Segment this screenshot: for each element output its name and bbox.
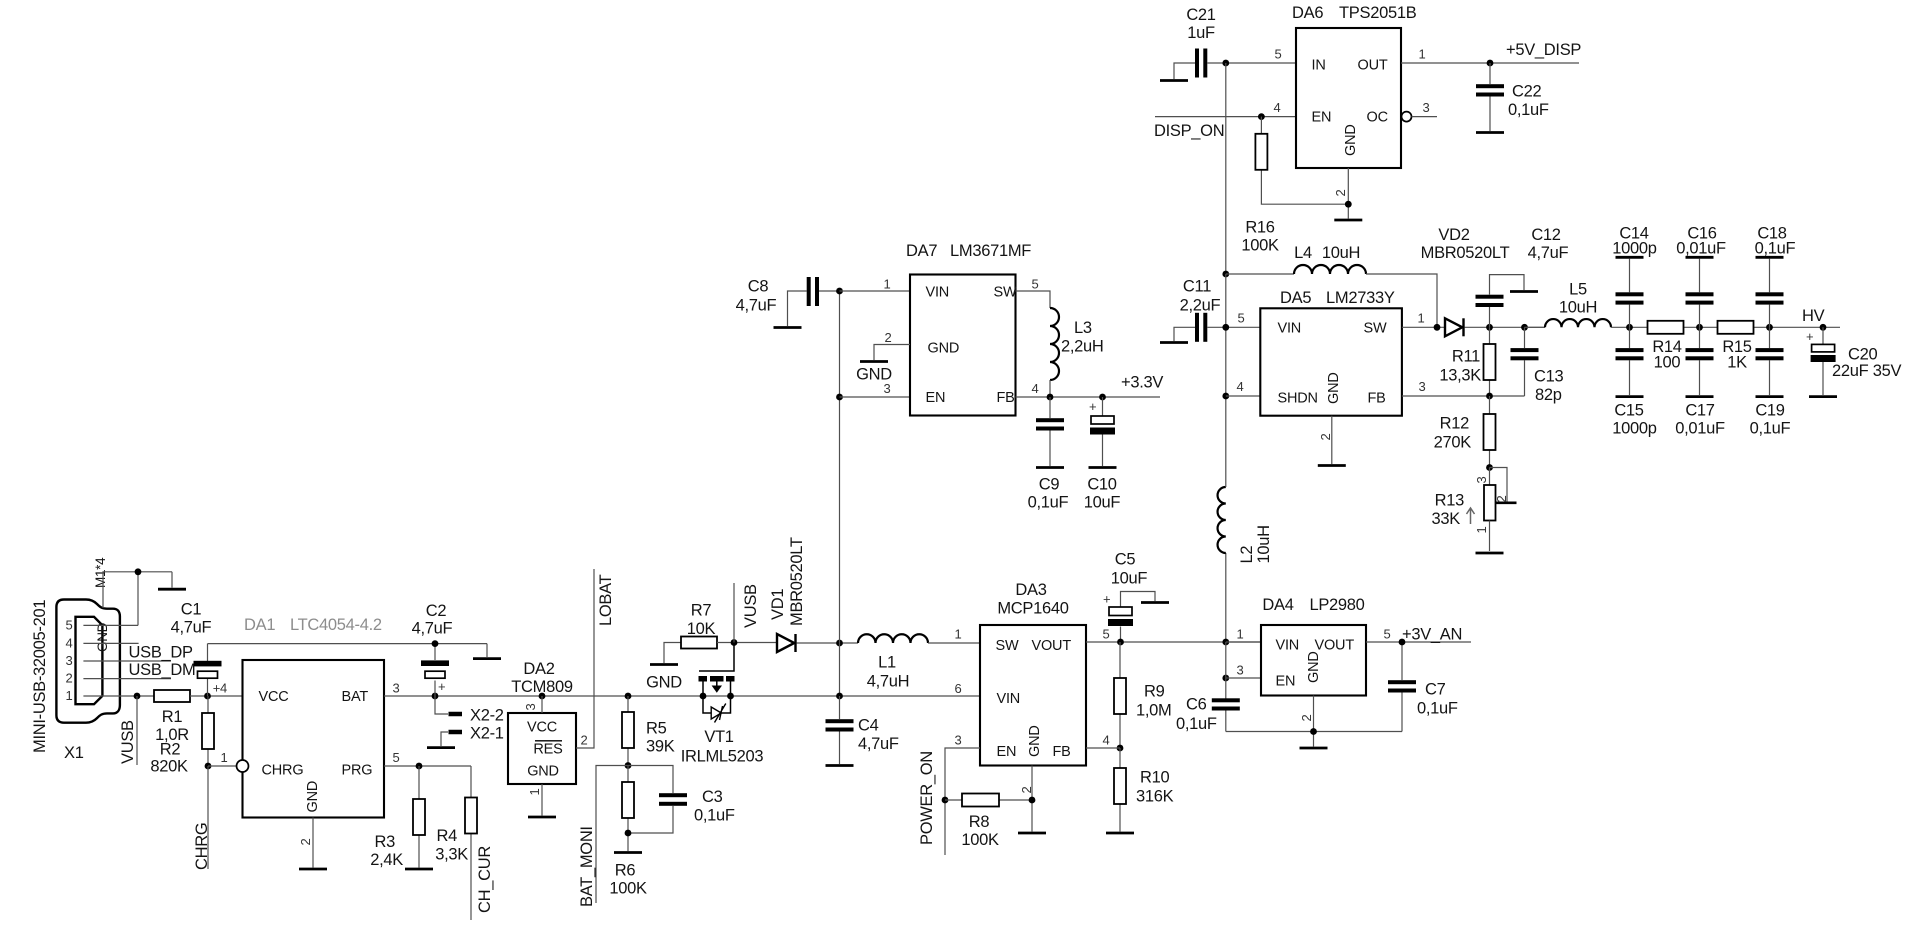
svg-text:POWER_ON: POWER_ON xyxy=(918,751,936,845)
ground (C9) xyxy=(1036,466,1064,469)
svg-text:4,7uF: 4,7uF xyxy=(1528,244,1569,262)
node VT1 left on BAT rail xyxy=(700,693,707,700)
op-amp U: IC DA1 LTC4054-4.2 xyxy=(243,616,385,818)
svg-text:C22: C22 xyxy=(1512,83,1541,101)
node C16/C17 xyxy=(1696,324,1703,331)
svg-text:39K: 39K xyxy=(646,738,675,756)
svg-text:0,1uF: 0,1uF xyxy=(1755,240,1796,258)
svg-text:R9: R9 xyxy=(1144,683,1165,701)
svg-text:VOUT: VOUT xyxy=(1315,638,1355,654)
IC DA2 TCM809 xyxy=(508,660,576,784)
wire DA1 GND pin down xyxy=(312,818,314,868)
svg-text:13,3K: 13,3K xyxy=(1439,367,1481,385)
node DA4 GND row xyxy=(1310,728,1317,735)
node R16 top xyxy=(1258,113,1265,120)
node R6/C3 xyxy=(625,830,632,837)
capacitor C17 0,01uF xyxy=(1675,327,1725,437)
svg-text:USB_DM: USB_DM xyxy=(129,661,196,679)
svg-text:0,1uF: 0,1uF xyxy=(1176,715,1217,733)
wire DA2 pin3 xyxy=(541,696,543,713)
ground (C4) xyxy=(826,764,854,767)
wire CHRG pin xyxy=(208,765,236,767)
svg-text:+: + xyxy=(1089,399,1096,414)
svg-text:1,0M: 1,0M xyxy=(1136,702,1171,720)
svg-text:5: 5 xyxy=(1275,47,1282,62)
svg-text:GND: GND xyxy=(928,341,960,357)
svg-text:C21: C21 xyxy=(1186,6,1215,24)
svg-text:C17: C17 xyxy=(1685,402,1714,420)
wire X1 pin2 USB_DM xyxy=(83,678,171,680)
wire C6/DA4 gnd row xyxy=(1226,731,1402,733)
svg-text:4: 4 xyxy=(66,636,73,651)
svg-text:R12: R12 xyxy=(1440,415,1469,433)
capacitor C7 0,1uF xyxy=(1388,642,1458,732)
svg-text:4,7uF: 4,7uF xyxy=(736,297,777,315)
svg-text:10uH: 10uH xyxy=(1255,525,1273,563)
transistor Q VT1 IRLML5203 xyxy=(681,643,764,766)
node C10 xyxy=(1099,394,1106,401)
node VD1/L1/DA7 column xyxy=(836,640,843,647)
svg-text:+3.3V: +3.3V xyxy=(1121,374,1163,392)
ground (DA6) xyxy=(1334,219,1362,222)
svg-text:R6: R6 xyxy=(615,862,636,880)
pin OC inverting circle and stub xyxy=(1402,112,1438,122)
wire VUSB stub up xyxy=(733,583,735,643)
node C5/VOUT xyxy=(1117,639,1124,646)
wire to DA4 EN xyxy=(1226,642,1261,700)
ground (DA5) xyxy=(1318,464,1346,467)
svg-text:R1: R1 xyxy=(162,708,183,726)
svg-text:4,7uF: 4,7uF xyxy=(171,619,212,637)
node DA6 GND / R16 xyxy=(1345,201,1352,208)
wire X1 pin5 xyxy=(83,624,138,626)
svg-text:VD2: VD2 xyxy=(1438,226,1469,244)
trimmer R13 33K xyxy=(1432,468,1517,552)
svg-text:R2: R2 xyxy=(160,741,181,759)
ground (DA7 GND pin) xyxy=(856,362,892,384)
node column/BAT rail xyxy=(836,693,843,700)
svg-text:10uH: 10uH xyxy=(1322,244,1360,262)
svg-text:10uF: 10uF xyxy=(1111,570,1148,588)
resistor R10 xyxy=(1114,748,1174,832)
node C18/C19 xyxy=(1766,324,1773,331)
wire DA2 pin2 to LOBAT xyxy=(576,569,594,748)
svg-text:2: 2 xyxy=(66,671,73,686)
node R1/C1/R2 xyxy=(204,693,211,700)
svg-text:2: 2 xyxy=(1333,190,1348,197)
ground (C8) xyxy=(774,291,807,328)
svg-text:820K: 820K xyxy=(150,758,188,776)
svg-text:SW: SW xyxy=(1364,321,1387,337)
wire VD1 cathode to node xyxy=(797,642,859,644)
wire pin5 to gnd net vertical xyxy=(137,572,139,626)
svg-text:316K: 316K xyxy=(1136,788,1174,806)
svg-text:TPS2051B: TPS2051B xyxy=(1339,4,1417,22)
capacitor C1 4,7uF (polarized) xyxy=(171,601,222,697)
svg-text:5: 5 xyxy=(1238,311,1245,326)
svg-text:IRLML5203: IRLML5203 xyxy=(681,748,764,766)
svg-text:6: 6 xyxy=(955,681,962,696)
svg-text:1: 1 xyxy=(1419,47,1426,62)
svg-text:4: 4 xyxy=(1032,381,1039,396)
svg-text:VIN: VIN xyxy=(1276,638,1300,654)
svg-text:0,1uF: 0,1uF xyxy=(1028,494,1069,512)
svg-text:X2-1: X2-1 xyxy=(470,725,504,743)
svg-text:LOBAT: LOBAT xyxy=(597,574,615,626)
resistor R8 xyxy=(945,794,1032,850)
svg-text:10K: 10K xyxy=(687,620,716,638)
connector X1 MINI-USB-32005-201 xyxy=(56,600,120,723)
svg-text:MBR0520LT: MBR0520LT xyxy=(788,537,806,626)
diode VD1 MBR0520LT xyxy=(769,537,806,652)
wire BAT rail y696 xyxy=(384,695,980,697)
ground (DA4) xyxy=(1300,747,1328,750)
ground (C19) xyxy=(1756,395,1784,398)
svg-text:5: 5 xyxy=(393,750,400,765)
wire DA2 pin1 down xyxy=(541,784,543,816)
svg-text:GND: GND xyxy=(305,781,321,813)
svg-text:DA2: DA2 xyxy=(523,660,554,678)
ground (C12) xyxy=(1510,290,1538,293)
ground (C5) xyxy=(1141,601,1169,604)
svg-text:CH_CUR: CH_CUR xyxy=(476,846,494,913)
svg-text:C12: C12 xyxy=(1531,226,1560,244)
svg-text:DA1: DA1 xyxy=(244,616,275,634)
node SW/L4 xyxy=(1434,324,1441,331)
svg-text:C15: C15 xyxy=(1614,402,1643,420)
svg-text:C20: C20 xyxy=(1848,346,1877,364)
svg-text:2: 2 xyxy=(581,733,588,748)
node C11/rail xyxy=(1222,324,1229,331)
resistor R9 xyxy=(1114,642,1171,748)
node junction M1/GND xyxy=(135,568,142,575)
ground (C18 top) xyxy=(1756,256,1784,259)
capacitor C2 4,7uF (polarized) xyxy=(412,602,453,696)
IC DA5 LM2733Y xyxy=(1260,289,1402,416)
node FB/R11/R12 xyxy=(1486,393,1493,400)
svg-text:VCC: VCC xyxy=(527,720,557,736)
capacitor C21 1uF xyxy=(1186,6,1296,78)
svg-text:OUT: OUT xyxy=(1358,58,1388,74)
svg-text:0,01uF: 0,01uF xyxy=(1676,240,1726,258)
svg-text:100K: 100K xyxy=(961,831,999,849)
capacitor C13 82p xyxy=(1511,327,1564,404)
svg-text:C3: C3 xyxy=(702,788,723,806)
wire C1/C2 top ground rail xyxy=(208,643,488,645)
wire DA7 SW to L3 xyxy=(1016,291,1051,308)
svg-text:2,4K: 2,4K xyxy=(370,851,403,869)
wire DA6 GND pin down xyxy=(1347,168,1349,219)
capacitor C12 4,7uF xyxy=(1476,226,1569,327)
inductor L4 10uH xyxy=(1226,244,1437,327)
svg-text:4,7uH: 4,7uH xyxy=(867,673,910,691)
svg-text:R16: R16 xyxy=(1245,219,1274,237)
wire X2-1 to ground xyxy=(441,732,448,746)
svg-text:C2: C2 xyxy=(426,602,447,620)
svg-text:DISP_ON: DISP_ON xyxy=(1154,122,1224,140)
resistor R5 xyxy=(622,696,675,766)
svg-text:L1: L1 xyxy=(878,654,896,672)
svg-text:C8: C8 xyxy=(748,278,769,296)
resistor R16 xyxy=(1241,117,1348,255)
svg-text:+: + xyxy=(438,679,445,694)
svg-text:EN: EN xyxy=(1312,110,1332,126)
svg-text:5: 5 xyxy=(1384,627,1391,642)
node C8/DA7 VIN xyxy=(836,288,843,295)
svg-text:GND: GND xyxy=(1326,372,1342,404)
node C21/rail xyxy=(1222,60,1229,67)
svg-text:100K: 100K xyxy=(1241,237,1279,255)
svg-text:FB: FB xyxy=(997,390,1015,406)
svg-text:USB_DP: USB_DP xyxy=(129,644,194,662)
svg-text:LM3671MF: LM3671MF xyxy=(950,242,1031,260)
wire DISP_ON rail vertical xyxy=(1225,63,1227,274)
svg-text:VIN: VIN xyxy=(1278,321,1302,337)
svg-text:GND: GND xyxy=(646,674,682,692)
wire DA7 VIN pin xyxy=(840,290,911,292)
svg-text:VUSB: VUSB xyxy=(119,720,137,764)
capacitor C22 0,1uF xyxy=(1476,63,1549,131)
connector pad X2-1 xyxy=(449,725,504,743)
node pin1/VUSB xyxy=(134,693,141,700)
node L3/C9 xyxy=(1047,394,1054,401)
resistor R3 xyxy=(370,766,425,869)
svg-text:MCP1640: MCP1640 xyxy=(997,600,1068,618)
wire X1 pin4 xyxy=(83,642,138,644)
wire mounting to shield top xyxy=(103,572,172,608)
resistor R2 xyxy=(150,696,214,776)
svg-text:C13: C13 xyxy=(1534,368,1563,386)
svg-text:HV: HV xyxy=(1802,307,1825,325)
svg-text:4: 4 xyxy=(1103,733,1110,748)
node SHDN/rail xyxy=(1222,393,1229,400)
ground (C14 top) xyxy=(1616,256,1644,259)
svg-text:+3V_AN: +3V_AN xyxy=(1402,626,1462,644)
ground (C21) xyxy=(1160,63,1196,81)
ground (R13) xyxy=(1476,552,1504,555)
svg-text:L3: L3 xyxy=(1074,319,1092,337)
wire DA3 FB xyxy=(1086,747,1120,749)
svg-text:L5: L5 xyxy=(1569,281,1587,299)
wire to X2-2 stub xyxy=(435,696,448,714)
wire DA6 OUT to +5V_DISP xyxy=(1401,62,1579,64)
svg-text:GND: GND xyxy=(527,764,559,780)
svg-text:FB: FB xyxy=(1368,391,1386,407)
svg-text:VD1: VD1 xyxy=(769,589,787,620)
inductor L2 10uH (vertical) xyxy=(1218,487,1273,564)
ground (C1/C2 rail) xyxy=(473,644,501,659)
svg-text:C11: C11 xyxy=(1183,278,1211,296)
svg-text:BAT_MONI: BAT_MONI xyxy=(578,826,596,907)
svg-text:VUSB: VUSB xyxy=(742,584,760,628)
capacitor C14 1000p xyxy=(1612,225,1657,328)
svg-text:1: 1 xyxy=(1474,527,1489,534)
svg-text:M1*4: M1*4 xyxy=(93,557,108,588)
wire DA3 EN / POWER_ON xyxy=(945,748,980,855)
svg-text:2: 2 xyxy=(1494,496,1509,503)
svg-text:2: 2 xyxy=(298,839,313,846)
svg-text:BAT: BAT xyxy=(342,689,369,705)
resistor R11 xyxy=(1439,327,1495,396)
node R3/PRG xyxy=(416,763,423,770)
wire rail down to DA5 xyxy=(1225,274,1227,487)
node C13 top xyxy=(1521,324,1528,331)
svg-text:3: 3 xyxy=(1474,477,1489,484)
resistor R14 xyxy=(1648,321,1684,372)
svg-text:82p: 82p xyxy=(1535,386,1562,404)
capacitor C3 0,1uF xyxy=(628,766,735,834)
ground (C17) xyxy=(1686,395,1714,398)
wire DA4 VOUT to +3V_AN xyxy=(1366,641,1471,643)
svg-text:33K: 33K xyxy=(1432,510,1461,528)
resistor R6 xyxy=(609,766,647,898)
X1 pin numbers 5 4 3 2 1 xyxy=(66,618,73,704)
svg-text:1: 1 xyxy=(1237,627,1244,642)
ground (DA2) xyxy=(528,816,556,819)
svg-text:270K: 270K xyxy=(1434,434,1472,452)
node VT1 gate / VUSB xyxy=(731,639,738,646)
node R9/FB xyxy=(1117,745,1124,752)
wire DA7 FB row to +3.3V xyxy=(1016,396,1161,398)
connector pad X2-2 xyxy=(449,707,504,725)
svg-text:SHDN: SHDN xyxy=(1278,391,1318,407)
svg-text:0,1uF: 0,1uF xyxy=(1508,101,1549,119)
svg-text:R7: R7 xyxy=(691,602,712,620)
wire DA5 SW pin xyxy=(1402,326,1445,328)
svg-text:C5: C5 xyxy=(1115,551,1136,569)
ground (C11) xyxy=(1160,327,1196,342)
wire DA5 GND pin down xyxy=(1331,416,1333,464)
capacitor C4 4,7uF xyxy=(826,696,899,764)
svg-text:DA3: DA3 xyxy=(1015,581,1046,599)
IC DA3 MCP1640 xyxy=(980,581,1086,766)
wire X1 pin1 VUSB xyxy=(83,695,154,697)
svg-text:1: 1 xyxy=(66,688,73,703)
svg-text:LTC4054-4.2: LTC4054-4.2 xyxy=(290,616,382,634)
node R2/CHRG xyxy=(205,763,212,770)
wire DA3 GND pin xyxy=(1031,766,1033,832)
svg-text:GND: GND xyxy=(856,366,892,384)
capacitor C16 0,01uF xyxy=(1676,225,1726,328)
svg-text:3: 3 xyxy=(523,704,538,711)
svg-text:L2: L2 xyxy=(1238,546,1256,564)
node DA4 VIN column xyxy=(1222,639,1229,646)
svg-text:R13: R13 xyxy=(1435,492,1464,510)
resistor R1 xyxy=(154,690,190,744)
svg-text:1K: 1K xyxy=(1727,354,1747,372)
svg-text:CHRG: CHRG xyxy=(262,763,304,779)
capacitor C19 0,1uF xyxy=(1750,327,1791,437)
node VT1 right on BAT rail xyxy=(727,693,734,700)
svg-text:1: 1 xyxy=(884,277,891,292)
svg-text:CHRG: CHRG xyxy=(193,823,211,870)
svg-text:C10: C10 xyxy=(1087,476,1116,494)
wire DA6 EN / DISP_ON xyxy=(1155,116,1296,118)
svg-text:DA4: DA4 xyxy=(1262,596,1293,614)
svg-text:4,7uF: 4,7uF xyxy=(858,735,899,753)
node R5/R6/BAT_MONI xyxy=(625,762,632,769)
ground (C15) xyxy=(1616,395,1644,398)
svg-text:1000p: 1000p xyxy=(1612,240,1657,258)
svg-text:R10: R10 xyxy=(1140,769,1169,787)
svg-text:1uF: 1uF xyxy=(1187,24,1215,42)
resistor R4 xyxy=(435,766,477,920)
wire BAT_MONI elbow xyxy=(596,766,628,904)
ground (DA1) xyxy=(299,868,327,871)
svg-text:EN: EN xyxy=(926,390,946,406)
wire DA5 SHDN pin xyxy=(1226,395,1261,397)
node R8 left xyxy=(942,797,949,804)
resistor R12 xyxy=(1434,396,1496,468)
svg-text:2,2uH: 2,2uH xyxy=(1061,338,1104,356)
node DA4 EN column xyxy=(1222,675,1229,682)
svg-text:TCM809: TCM809 xyxy=(511,678,573,696)
svg-text:MINI-USB-32005-201: MINI-USB-32005-201 xyxy=(31,600,49,753)
wire VOUT rail y642 xyxy=(1086,641,1261,643)
svg-text:10uF: 10uF xyxy=(1084,494,1121,512)
ground (C22) xyxy=(1476,131,1504,134)
ground (R7 left) xyxy=(646,643,682,692)
svg-text:2: 2 xyxy=(1318,434,1333,441)
node C7/+3V_AN xyxy=(1399,639,1406,646)
svg-text:3: 3 xyxy=(1423,100,1430,115)
svg-text:R8: R8 xyxy=(969,813,990,831)
svg-text:X1: X1 xyxy=(64,744,84,762)
svg-text:1: 1 xyxy=(221,750,228,765)
svg-text:R3: R3 xyxy=(375,833,396,851)
svg-text:0,01uF: 0,01uF xyxy=(1675,420,1725,438)
IC DA6 TPS2051B xyxy=(1292,4,1417,168)
ground (C10) xyxy=(1089,466,1117,469)
svg-text:VT1: VT1 xyxy=(704,728,733,746)
svg-text:OC: OC xyxy=(1367,110,1388,126)
svg-text:RES: RES xyxy=(533,742,562,758)
resistor R15 xyxy=(1718,321,1754,372)
ground (DA3) xyxy=(1018,832,1046,835)
svg-text:3,3K: 3,3K xyxy=(435,846,468,864)
capacitor C20 22uF 35V (polarized) xyxy=(1806,327,1901,395)
svg-text:C1: C1 xyxy=(181,601,202,619)
svg-text:2: 2 xyxy=(885,330,892,345)
svg-text:VOUT: VOUT xyxy=(1032,638,1072,654)
node C12/R11 xyxy=(1486,324,1493,331)
capacitor C5 10uF (polarized) xyxy=(1103,551,1155,643)
svg-text:GND: GND xyxy=(1306,651,1322,683)
wire R7 to VD1 xyxy=(717,642,777,644)
capacitor C11 2,2uF xyxy=(1180,278,1261,342)
ground (R6) xyxy=(614,851,642,854)
svg-text:+5V_DISP: +5V_DISP xyxy=(1506,41,1581,59)
node L4 tap on rail xyxy=(1222,271,1229,278)
ground (R3) xyxy=(405,868,433,871)
svg-text:VCC: VCC xyxy=(259,689,289,705)
capacitor C8 4,7uF xyxy=(736,277,840,315)
capacitor C15 1000p xyxy=(1612,327,1657,437)
svg-text:X2-2: X2-2 xyxy=(470,707,504,725)
svg-text:LM2733Y: LM2733Y xyxy=(1326,289,1395,307)
svg-text:R11: R11 xyxy=(1452,348,1480,366)
svg-text:0,1uF: 0,1uF xyxy=(694,807,735,825)
svg-text:C9: C9 xyxy=(1039,476,1060,494)
ground (X2-1) xyxy=(427,746,455,749)
svg-text:4: 4 xyxy=(1237,379,1244,394)
svg-text:SW: SW xyxy=(996,638,1019,654)
node DA7 EN column xyxy=(836,394,843,401)
svg-text:2,2uF: 2,2uF xyxy=(1180,297,1221,315)
svg-text:4: 4 xyxy=(1274,100,1281,115)
svg-text:2: 2 xyxy=(1299,715,1314,722)
svg-text:0,1uF: 0,1uF xyxy=(1750,420,1791,438)
